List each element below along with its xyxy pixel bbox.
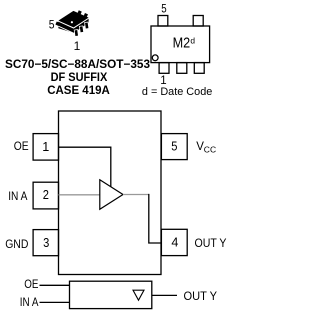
pin 2 box (33, 182, 58, 209)
back lead tab B (83, 13, 88, 18)
logic diagram wire IN A (40, 301, 70, 303)
svg-text:5: 5 (171, 140, 177, 154)
svg-text:OE: OE (24, 279, 38, 291)
svg-text:CASE 419A: CASE 419A (47, 85, 110, 97)
svg-text:4: 4 (171, 236, 178, 250)
package top view: top pin 4 pad (193, 16, 203, 27)
svg-text:2: 2 (43, 188, 49, 202)
left face white stripe (58, 26, 73, 33)
package 3D view (SC70-5 isometric) (55, 10, 89, 37)
package top view: top pin 5 pad (158, 16, 168, 27)
svg-text:OUT Y: OUT Y (195, 238, 227, 250)
svg-text:d = Date Code: d = Date Code (142, 86, 212, 98)
package top view: bottom pin 3 pad (194, 63, 204, 74)
front lead 1 (74, 30, 78, 37)
back-left lead tab (55, 21, 60, 26)
pin 3 box (33, 230, 58, 256)
wire IN A to buffer (59, 194, 100, 196)
pin 5 box (161, 134, 187, 160)
pin 4 box (161, 229, 187, 255)
package top view: bottom pin 1 pad (159, 63, 169, 74)
package top face (58, 11, 88, 28)
svg-text:DF SUFFIX: DF SUFFIX (51, 72, 108, 84)
logic diagram box (70, 281, 152, 308)
svg-text:M2: M2 (173, 35, 191, 51)
wire OE enable (59, 147, 111, 187)
pinout body (59, 111, 162, 275)
package top view: pin 1 indicator circle (152, 55, 158, 61)
svg-text:d: d (190, 36, 195, 46)
package top view: bottom pin 2 pad (177, 63, 187, 74)
svg-text:1: 1 (74, 39, 81, 53)
svg-text:IN A: IN A (8, 191, 27, 203)
svg-text:OUT Y: OUT Y (184, 291, 218, 303)
svg-text:1: 1 (42, 140, 49, 154)
svg-text:5: 5 (161, 1, 167, 15)
svg-text:5: 5 (49, 20, 55, 32)
svg-text:OE: OE (14, 141, 29, 153)
package body lower faces (58, 18, 88, 33)
svg-text:CC: CC (204, 144, 216, 154)
buffer triangle (100, 180, 123, 210)
front lead 3 (85, 22, 89, 29)
svg-text:GND: GND (5, 239, 28, 251)
svg-text:SC70−5/SC−88A/SOT−353: SC70−5/SC−88A/SOT−353 (5, 59, 150, 71)
svg-text:IN A: IN A (20, 297, 39, 309)
svg-text:3: 3 (43, 236, 49, 250)
logic diagram inverter triangle (133, 290, 144, 300)
front lead 2 (79, 26, 83, 33)
pin 1 indicator dot (71, 21, 73, 23)
pin 1 box (33, 134, 58, 161)
wire buffer output (123, 194, 149, 196)
wire output down to pin 4 (149, 194, 161, 243)
package top view: body (151, 26, 210, 63)
back lead tab A (77, 10, 82, 15)
top face separation white line (58, 18, 88, 28)
logic diagram wire output (152, 294, 177, 296)
logic diagram wire OE (40, 284, 70, 286)
